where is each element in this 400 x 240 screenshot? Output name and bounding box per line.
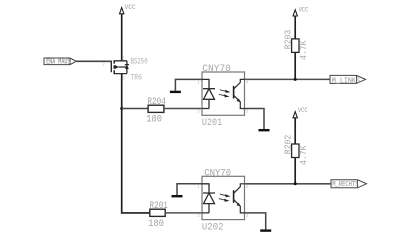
svg-text:4: 4 xyxy=(246,185,249,190)
svg-text:M_RECHTS: M_RECHTS xyxy=(332,181,358,189)
svg-text:4: 4 xyxy=(246,80,249,85)
svg-text:3: 3 xyxy=(122,76,125,81)
svg-text:3: 3 xyxy=(246,214,249,219)
svg-text:3: 3 xyxy=(246,109,249,114)
svg-text:U201: U201 xyxy=(202,117,222,129)
svg-text:R201: R201 xyxy=(150,200,168,212)
svg-text:CNY70: CNY70 xyxy=(202,63,231,75)
svg-text:2: 2 xyxy=(197,109,200,114)
svg-text:VCC: VCC xyxy=(298,107,308,115)
svg-text:BS250: BS250 xyxy=(131,57,148,66)
svg-text:1: 1 xyxy=(197,80,200,85)
svg-text:U202: U202 xyxy=(202,221,224,233)
svg-text:1: 1 xyxy=(197,185,200,190)
svg-text:R202: R202 xyxy=(283,135,293,155)
svg-text:VCC: VCC xyxy=(299,7,309,15)
svg-text:4.7K: 4.7K xyxy=(299,145,309,165)
svg-text:TR6: TR6 xyxy=(130,74,142,82)
svg-text:VCC: VCC xyxy=(125,4,136,12)
svg-text:R203: R203 xyxy=(283,30,293,50)
svg-text:4.7K: 4.7K xyxy=(299,40,309,60)
svg-text:R204: R204 xyxy=(147,96,165,108)
svg-text:180: 180 xyxy=(146,113,162,125)
svg-text:CNY70: CNY70 xyxy=(204,167,231,179)
svg-text:M_LINKS: M_LINKS xyxy=(332,77,360,85)
svg-text:1: 1 xyxy=(122,57,125,62)
svg-text:2: 2 xyxy=(102,63,105,68)
svg-text:ENA_MAUS: ENA_MAUS xyxy=(46,59,70,67)
svg-text:2: 2 xyxy=(197,214,200,219)
svg-text:180: 180 xyxy=(148,218,164,230)
